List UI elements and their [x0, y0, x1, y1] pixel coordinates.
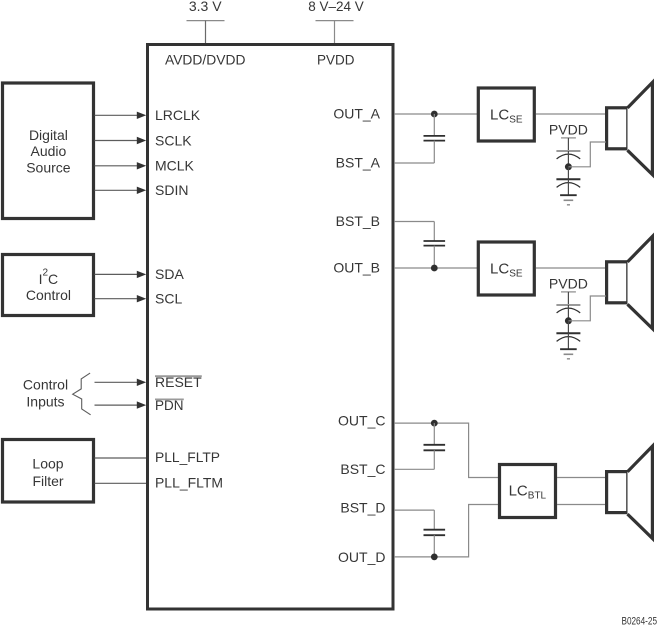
wire RESET with arrow [95, 379, 147, 386]
wire OUT_D to LC_BTL [395, 505, 499, 557]
wire SDIN with arrow [95, 187, 147, 194]
svg-text:LRCLK: LRCLK [155, 107, 201, 123]
wire BST_B [395, 221, 435, 223]
svg-text:Audio: Audio [30, 143, 66, 159]
capacitor ground-side polarized B [556, 321, 580, 349]
svg-text:SDA: SDA [155, 266, 184, 282]
svg-text:SCLK: SCLK [155, 132, 192, 148]
speaker C driver [607, 472, 628, 513]
node junction OUT_D [431, 554, 438, 561]
wire junction B to speaker B negative terminal [568, 296, 606, 321]
svg-text:B0264-25: B0264-25 [622, 615, 658, 625]
wire MCLK with arrow [95, 162, 147, 169]
wire OUT_A to LC_SE filter [395, 113, 477, 115]
wire SDA with arrow [95, 271, 147, 278]
svg-text:PLL_FLTM: PLL_FLTM [155, 475, 223, 491]
wire LC_BTL to speaker C lower [557, 504, 606, 506]
wire 8V-24V supply T-bar [316, 20, 354, 22]
svg-text:BST_C: BST_C [340, 461, 385, 477]
wire 3.3V supply to AVDD/DVDD pin [205, 21, 207, 44]
wire LC_SE A to speaker A [536, 113, 606, 115]
wire junction A to speaker A negative terminal [568, 142, 606, 167]
speaker A horn [628, 82, 653, 174]
speaker A driver [607, 108, 628, 149]
speaker B driver [607, 262, 628, 303]
wire BST_D [395, 509, 435, 511]
wire PLL_FLTM [95, 482, 147, 484]
svg-text:OUT_A: OUT_A [333, 105, 380, 121]
ground symbol channel A [560, 195, 577, 205]
wire LC_SE B to speaker B [536, 267, 606, 269]
svg-text:PLL_FLTP: PLL_FLTP [155, 449, 220, 465]
svg-text:SCL: SCL [155, 291, 182, 307]
wire 8V-24V supply to PVDD pin [334, 21, 336, 44]
filter block LC_SE channel A [478, 88, 534, 141]
svg-text:Source: Source [26, 159, 71, 175]
label Control Inputs [23, 377, 68, 410]
svg-text:PVDD: PVDD [317, 52, 355, 68]
node speaker B return junction [565, 317, 572, 324]
wire PVDD A down to cap [567, 138, 569, 151]
capacitor bootstrap D [424, 510, 446, 557]
capacitor bootstrap B [424, 222, 446, 269]
brace for control inputs [73, 373, 91, 415]
label I2C Control [26, 268, 71, 303]
wire PVDD A T-bar [561, 137, 576, 139]
svg-text:8 V–24 V: 8 V–24 V [308, 0, 364, 14]
pin label PDN with overline [155, 397, 184, 413]
capacitor PVDD-side polarized A [556, 151, 580, 164]
node speaker A return junction [565, 163, 572, 170]
wire PDN with arrow [95, 401, 147, 408]
capacitor ground-side polarized A [556, 167, 580, 195]
label Loop Filter [32, 456, 63, 490]
wire PVDD B down to cap [567, 292, 569, 305]
svg-text:SDIN: SDIN [155, 182, 188, 198]
speaker B horn [628, 236, 653, 328]
svg-text:3.3 V: 3.3 V [189, 0, 222, 14]
svg-text:OUT_D: OUT_D [338, 549, 385, 565]
node junction OUT_A [431, 111, 438, 118]
IC U1 main amplifier box [148, 45, 394, 610]
svg-text:I2C: I2C [39, 268, 59, 287]
capacitor bootstrap C [424, 423, 446, 469]
svg-text:Digital: Digital [29, 127, 68, 143]
svg-text:MCLK: MCLK [155, 158, 195, 174]
wire OUT_B to LC_SE filter [395, 267, 477, 269]
block I2C Control [3, 255, 94, 316]
svg-text:Inputs: Inputs [26, 393, 64, 409]
svg-text:BST_D: BST_D [340, 500, 385, 516]
wire LC_BTL to speaker C upper [557, 477, 606, 479]
wire PLL_FLTP [95, 457, 147, 459]
wire OUT_C to LC_BTL [395, 423, 499, 477]
svg-text:Loop: Loop [32, 456, 63, 472]
svg-text:Filter: Filter [32, 473, 63, 489]
wire BST_A [395, 162, 435, 164]
node junction OUT_C [431, 420, 438, 427]
svg-text:BST_A: BST_A [336, 154, 381, 170]
svg-text:PVDD: PVDD [549, 275, 588, 291]
ground symbol channel B [560, 349, 577, 359]
wire PVDD B T-bar [561, 291, 576, 293]
svg-text:BST_B: BST_B [336, 213, 380, 229]
label Digital Audio Source [26, 127, 71, 175]
node junction OUT_B [431, 265, 438, 272]
capacitor bootstrap A [424, 114, 446, 163]
block Loop Filter [3, 440, 94, 503]
wire 3.3V supply T-bar [187, 20, 225, 22]
filter block LC_SE channel B [478, 242, 534, 295]
capacitor PVDD-side polarized B [556, 305, 580, 318]
wire BST_C [395, 468, 435, 470]
svg-text:OUT_B: OUT_B [333, 260, 380, 276]
svg-text:Control: Control [23, 377, 68, 393]
wire SCLK with arrow [95, 137, 147, 144]
svg-text:AVDD/DVDD: AVDD/DVDD [165, 52, 246, 68]
svg-text:OUT_C: OUT_C [338, 413, 385, 429]
speaker C horn [628, 446, 653, 538]
filter block LC_BTL [500, 465, 556, 518]
block Digital Audio Source [3, 83, 94, 219]
wire LRCLK with arrow [95, 112, 147, 119]
pin label RESET with overline [155, 374, 202, 390]
svg-text:PVDD: PVDD [549, 121, 588, 137]
svg-text:Control: Control [26, 287, 71, 303]
wire SCL with arrow [95, 295, 147, 302]
